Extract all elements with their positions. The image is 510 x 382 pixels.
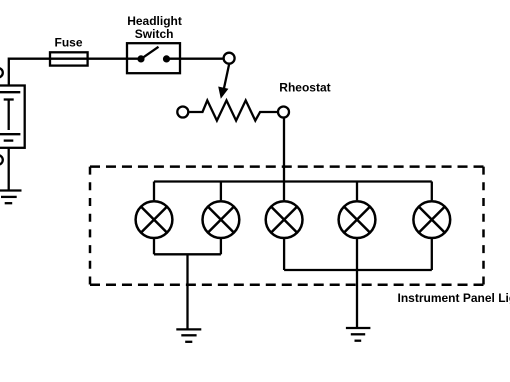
battery plate long bottom [0, 133, 20, 135]
wire fuse through to switch [50, 58, 141, 60]
drop wire to lamp 5 [431, 182, 433, 201]
svg-text:Rheostat: Rheostat [279, 81, 330, 95]
terminal circle upper left edge [0, 68, 3, 78]
battery B1 case [0, 86, 25, 148]
ground G1 (battery) [0, 191, 22, 204]
battery plate long top [0, 91, 20, 93]
switch contact right [163, 55, 170, 62]
svg-text:Fuse: Fuse [55, 35, 83, 49]
terminal circle lower left edge [0, 155, 3, 165]
lamp L2 [203, 201, 240, 238]
wire battery top to fuse [9, 59, 50, 86]
battery plate short with stem [4, 100, 14, 131]
lamp L5 [413, 201, 450, 238]
wire lamp1 bottom [153, 239, 155, 254]
svg-text:Instrument Panel Lights: Instrument Panel Lights [398, 291, 510, 305]
wire lamp4 bottom [356, 239, 358, 270]
wire rheostat down to lamp bus and lamp 3 [283, 118, 285, 200]
headlight switch S1 box [127, 43, 180, 73]
fuse F1 [50, 52, 88, 65]
terminal circle at switch output [224, 53, 235, 64]
wire bus1 to ground [186, 254, 188, 329]
switch contact left [137, 55, 144, 62]
lamp L4 [339, 201, 376, 238]
top bus wire [154, 180, 432, 182]
ground G2 (lamps 1-2) [176, 329, 201, 341]
lamp L3 [266, 201, 303, 238]
dashed enclosure instrument panel lights [90, 167, 484, 285]
wire bus2 to ground [356, 270, 358, 328]
wire lamp5 bottom [431, 239, 433, 270]
ground G3 (lamps 3-5) [346, 328, 371, 341]
drop wire to lamp 2 [220, 182, 222, 201]
bus lamps 3-5 bottom [284, 269, 432, 271]
switch blade [141, 47, 159, 59]
battery plate short bottom [4, 139, 14, 141]
svg-text:Switch: Switch [135, 27, 174, 41]
bus lamps 1-2 bottom [154, 253, 221, 255]
rheostat resistor zigzag [189, 100, 277, 120]
drop wire to lamp 4 [356, 182, 358, 201]
lamp L1 [136, 201, 173, 238]
wire battery bottom to ground [8, 148, 10, 191]
wire switch to terminal [167, 58, 223, 60]
rheostat R1 left terminal circle [177, 107, 188, 118]
rheostat wiper arrowhead [218, 87, 228, 99]
drop wire to lamp 1 [153, 182, 155, 201]
wire lamp3 bottom [283, 239, 285, 270]
rheostat wiper arrow shaft [224, 64, 229, 88]
rheostat R1 right terminal circle [278, 107, 289, 118]
wire lamp2 bottom [220, 239, 222, 254]
